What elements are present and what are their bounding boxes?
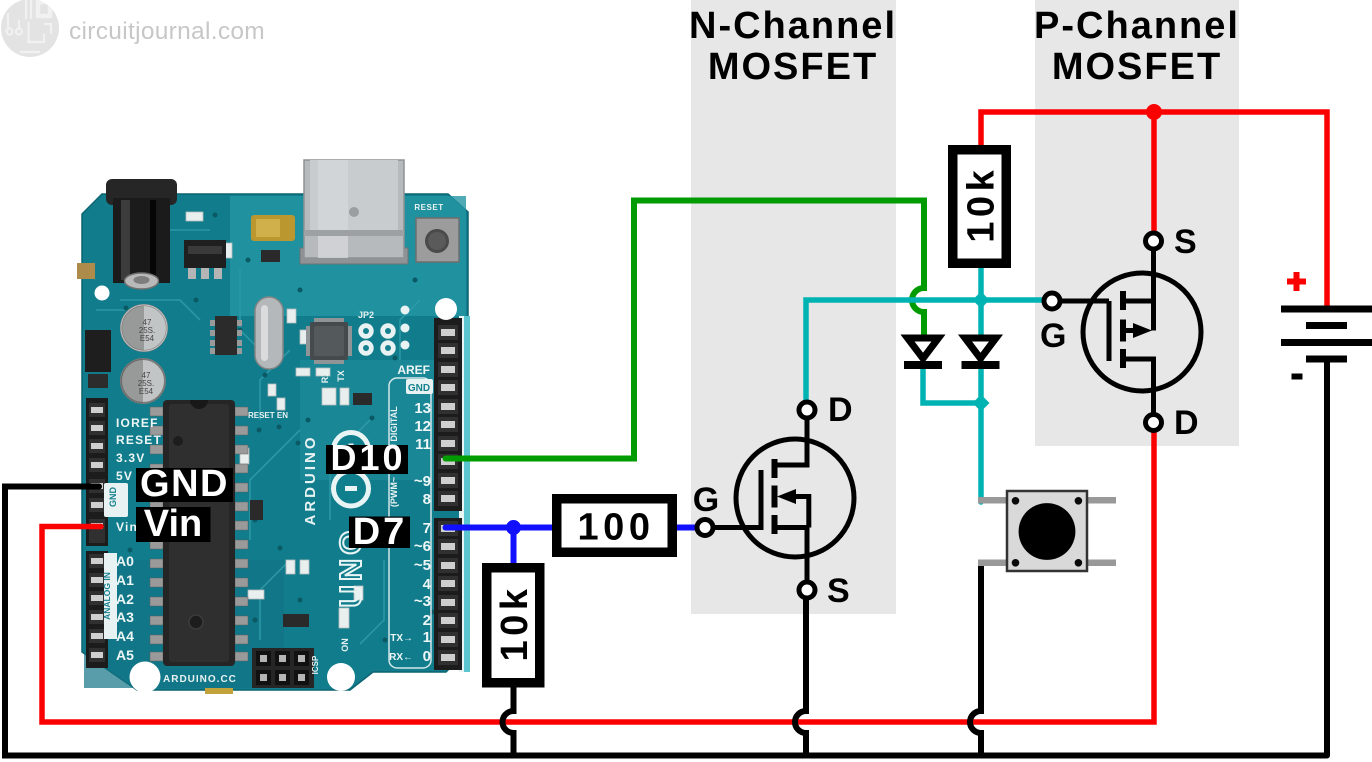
left edge black connector part [85, 330, 111, 372]
Q1 source pin [799, 582, 815, 598]
diode D1 (from green gate wire) [904, 338, 942, 365]
svg-text:JP2: JP2 [358, 310, 374, 320]
junction dot teal at diode cathode node [973, 395, 990, 412]
svg-text:~6: ~6 [414, 538, 431, 555]
svg-text:13: 13 [414, 400, 431, 417]
svg-text:MOSFET: MOSFET [1052, 46, 1222, 88]
svg-text:100: 100 [578, 507, 655, 549]
push button SW1 [978, 491, 1116, 571]
svg-text:P-Channel: P-Channel [1034, 5, 1240, 47]
electrolytic capacitor C2 [121, 359, 165, 403]
JP2 pads [358, 306, 410, 356]
svg-text:1: 1 [423, 629, 431, 646]
Q2 source pin [1146, 233, 1162, 249]
barrel jack [106, 179, 177, 289]
svg-text:ARDUINO: ARDUINO [302, 435, 319, 526]
battery BT1 [1281, 272, 1372, 380]
left silkscreen labels [116, 416, 162, 534]
svg-text:D: D [828, 391, 853, 429]
svg-text:8: 8 [423, 491, 431, 508]
wire: black from button to bottom rail, hops over red [970, 564, 981, 757]
svg-text:ICSP: ICSP [311, 655, 320, 674]
svg-text:12: 12 [414, 418, 431, 435]
Q1 drain pin [799, 402, 815, 418]
wire: teal from left diode cathode to diode junction [923, 368, 981, 403]
svg-text:Vin: Vin [116, 520, 138, 534]
svg-text:RESET: RESET [414, 203, 443, 212]
svg-text:ON: ON [340, 638, 350, 652]
svg-text:N-Channel: N-Channel [689, 5, 897, 47]
Q1 body lead with arrow [790, 497, 809, 528]
Q1 gate pin [697, 520, 713, 536]
svg-text:E54: E54 [140, 334, 155, 343]
wire: red from P-MOSFET source up to top rail [1151, 112, 1157, 234]
junction dot red at top rail [1146, 104, 1162, 120]
svg-text:A3: A3 [116, 609, 134, 625]
small white SMD parts [186, 200, 399, 694]
wire: red top rail from pull-up resistor to battery plus [981, 112, 1327, 307]
svg-text:circuitjournal.com: circuitjournal.com [69, 18, 265, 45]
Q1 body circle [736, 439, 854, 557]
svg-text:G: G [1040, 317, 1066, 355]
Q2 channel segments [1120, 291, 1126, 368]
svg-text:GND: GND [140, 463, 229, 505]
wire: teal from pull-up resistor bottom down through diodes node to button [978, 265, 984, 502]
Q2 gate lead [1059, 299, 1109, 304]
Q2 body circle [1083, 273, 1201, 391]
svg-text:ARDUINO.CC: ARDUINO.CC [163, 674, 237, 685]
svg-text:5V: 5V [116, 469, 133, 483]
N-Channel MOSFET gray region [691, 0, 896, 614]
PCB traces [96, 230, 420, 644]
svg-text:RX←: RX← [389, 652, 413, 663]
P-Channel MOSFET gray region [1035, 0, 1239, 446]
svg-text:RX: RX [320, 371, 330, 384]
Q2 drain lead [1123, 359, 1154, 416]
Q1 source lead [775, 528, 808, 583]
svg-text:A4: A4 [116, 628, 134, 644]
node label GND [136, 463, 233, 505]
svg-text:GND: GND [408, 383, 430, 394]
battery plus sign [1287, 272, 1306, 291]
resistor R3 10k pull-up [953, 150, 1007, 264]
SOIC8 chip [210, 316, 242, 355]
svg-text:10k: 10k [960, 166, 1002, 243]
Q1 gate line [759, 470, 764, 530]
node label Vin [136, 503, 211, 545]
DIGITAL (PWM~) silk outline [389, 378, 431, 668]
power header [86, 398, 108, 546]
Q2 gate pin [1044, 293, 1060, 309]
ATmega328P DIP chip [150, 400, 248, 666]
svg-text:S: S [1174, 223, 1197, 261]
Q2 gate line [1107, 301, 1112, 361]
battery short plate 2 [1306, 322, 1347, 329]
svg-text:7: 7 [423, 520, 431, 537]
svg-text:A2: A2 [116, 591, 134, 607]
svg-text:GND: GND [108, 487, 118, 508]
svg-text:(PWM~: (PWM~ [389, 477, 399, 507]
wire: black from battery minus down to bottom rail [1324, 360, 1330, 756]
svg-text:A0: A0 [116, 553, 134, 569]
wire: blue from 100 ohm resistor to N-MOSFET gate pin [673, 525, 697, 531]
gold fuse [251, 215, 295, 241]
svg-text:AREF: AREF [397, 363, 430, 377]
svg-text:D: D [1174, 404, 1199, 442]
svg-text:4: 4 [423, 576, 432, 593]
wire: red Vin from Arduino Vin pin, down and bottom red rail to P-MOSFET drain [42, 430, 1154, 722]
electrolytic capacitor C1 [121, 305, 167, 351]
svg-text:MOSFET: MOSFET [708, 46, 878, 88]
digital header lower [434, 518, 462, 670]
svg-text:S: S [827, 572, 850, 610]
PCB shading patches [230, 196, 466, 316]
Q2 source lead [1123, 249, 1154, 331]
P-channel MOSFET Q2 [1040, 223, 1201, 442]
svg-text:10k: 10k [494, 585, 536, 662]
digital header upper [434, 318, 462, 511]
battery long plate 3 [1281, 339, 1372, 346]
svg-text:D10: D10 [330, 437, 405, 478]
svg-text:G: G [693, 481, 719, 519]
GND white silk box (left) [104, 483, 128, 517]
Q1 drain lead [775, 416, 808, 465]
PCB outline [82, 194, 468, 690]
svg-text:~3: ~3 [414, 593, 431, 610]
node label D10 [326, 437, 408, 478]
Arduino infinity logo [334, 433, 369, 507]
ICSP header [252, 648, 320, 688]
wire: black from N-MOSFET source down to bottom rail, hops over red [795, 599, 806, 757]
wire: black from pull-down resistor to bottom rail, hops over red [503, 686, 514, 757]
junction dot blue at D7 node [506, 520, 521, 535]
Q2 drain pin [1146, 415, 1162, 431]
node label D7 [349, 511, 410, 553]
battery long plate 1 [1281, 306, 1372, 313]
svg-text:2: 2 [423, 612, 431, 629]
analog header [86, 551, 108, 668]
mounting holes [95, 286, 110, 301]
svg-text:RESET EN: RESET EN [248, 411, 288, 420]
resistor R2 10k pull-down [487, 568, 540, 683]
ANALOG IN white silk box [104, 553, 117, 639]
junction dot teal at gate net [973, 292, 990, 309]
battery short plate 4 [1306, 356, 1347, 363]
wire: teal gate net horizontal to P-MOSFET gate and down to N-MOSFET drain [806, 300, 1045, 402]
wire: green from Arduino D10 to N-MOSFET gate node, hops over teal wire [446, 201, 925, 459]
circuitjournal logo [1, 0, 59, 57]
dark SMD parts [250, 215, 381, 627]
N-channel MOSFET Q1 [693, 391, 854, 610]
svg-text:E54: E54 [139, 387, 154, 396]
wire: black GND from Arduino GND pin, left edge and bottom rail [5, 487, 1327, 756]
svg-text:IOREF: IOREF [116, 416, 159, 430]
svg-text:0: 0 [423, 648, 431, 665]
wire: blue from junction down to pull-down resistor [511, 528, 517, 568]
svg-text:11: 11 [415, 436, 431, 453]
svg-text:RESET: RESET [116, 433, 162, 447]
resistor R1 100 ohm [557, 499, 673, 553]
crystal oscillator [255, 297, 283, 369]
svg-text:TX→: TX→ [390, 633, 413, 644]
Arduino Uno board [77, 160, 470, 694]
GND white silk box (right) [406, 379, 433, 394]
svg-text:~9: ~9 [414, 473, 431, 490]
diode D2 (from teal gate wire) [962, 338, 1000, 365]
wire: blue from Arduino D7 to 100 ohm resistor [446, 525, 557, 531]
Q1 channel segments [772, 459, 778, 534]
svg-text:D7: D7 [353, 511, 408, 553]
vias (drill dots) [124, 213, 435, 643]
svg-text:A1: A1 [116, 572, 134, 588]
right pin number labels [414, 400, 432, 665]
battery minus sign [1292, 374, 1303, 380]
svg-text:A5: A5 [116, 647, 134, 663]
USB connector [300, 160, 408, 264]
voltage regulator [184, 240, 226, 279]
Q2 body lead with arrow [1123, 328, 1140, 333]
reset button [414, 203, 459, 262]
svg-text:ANALOG IN: ANALOG IN [102, 572, 112, 620]
svg-text:Vin: Vin [144, 503, 202, 545]
svg-text:TX: TX [336, 370, 346, 382]
svg-text:~5: ~5 [414, 557, 431, 574]
ATmega16U2 chip [306, 318, 352, 364]
Q1 gate lead [702, 525, 761, 530]
